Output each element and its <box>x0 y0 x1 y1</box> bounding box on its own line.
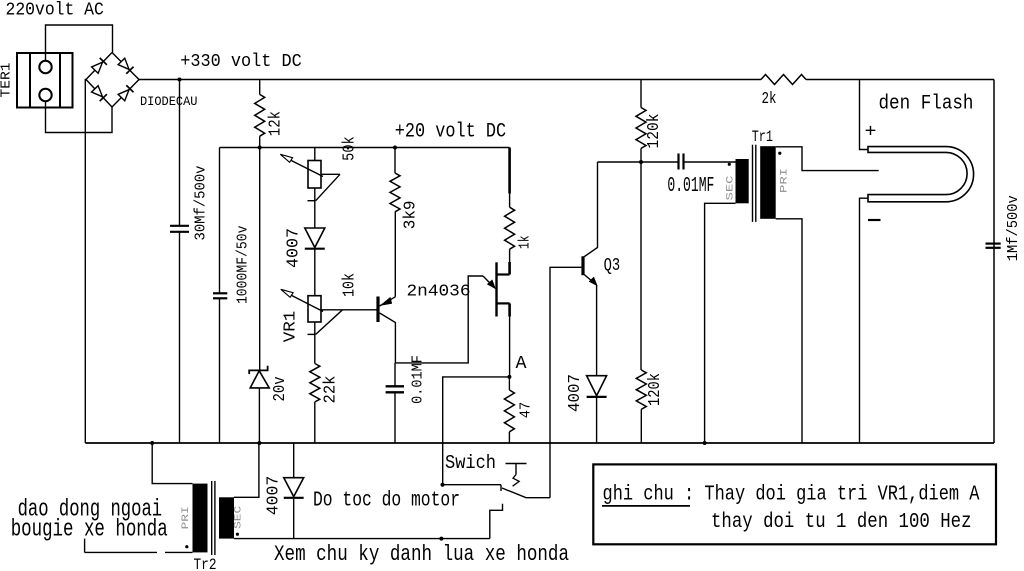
resistor 22k <box>310 364 320 403</box>
wire VR1 wiper to 2n4036 base <box>321 309 377 311</box>
UJT bar <box>495 262 497 316</box>
wire +330 rail to flash anode <box>860 80 869 150</box>
wire trigger node down to R 120k lower <box>640 162 642 370</box>
wire Q3 emitter to diode 4007 <box>596 285 598 375</box>
svg-text:1k: 1k <box>516 235 533 249</box>
transistor Q3 base bar <box>581 256 584 275</box>
wire +20 node to R 3k9 <box>394 148 396 174</box>
transformer Tr2 SEC polarity dot <box>236 533 239 536</box>
wire +330 rail to R 12k <box>259 80 261 95</box>
wire R 3k9 to 2n4036 emitter <box>394 212 396 297</box>
svg-text:12k: 12k <box>266 111 285 136</box>
node trigger junction <box>639 160 643 164</box>
wire TER1 top to bridge AC1 <box>46 25 113 61</box>
diode 4007 (oscillator) <box>305 228 325 248</box>
connector TER1 body <box>17 53 73 108</box>
svg-text:PRI: PRI <box>780 168 791 193</box>
resistor 120k (upper) <box>636 108 646 149</box>
wire diode 4007 to VR1 <box>314 250 316 296</box>
wire right rail <box>993 80 995 444</box>
wire flash cathode to ground rail <box>860 198 869 443</box>
wire external oscillator terminal <box>84 539 86 553</box>
wire TER1 bottom to bridge AC2 <box>46 101 113 132</box>
svg-text:30Mf/500v: 30Mf/500v <box>193 166 210 241</box>
resistor 12k <box>255 94 265 136</box>
wire +330V rail (2k to right rail) <box>806 79 994 81</box>
wire switch lever to Q3 base <box>550 267 581 497</box>
svg-text:1Mf/500v: 1Mf/500v <box>1005 195 1022 261</box>
potentiometer 50k body <box>308 161 321 189</box>
wire R 12k to +20 node <box>259 136 261 147</box>
wire +20 node to zener 20v <box>259 148 261 370</box>
svg-text:PRI: PRI <box>181 506 192 529</box>
wire R 120k lower to ground rail <box>640 409 642 443</box>
svg-text:Tr1: Tr1 <box>752 128 773 146</box>
capacitor 0.01MF (coupling) <box>677 154 679 170</box>
UJT emitter arrow <box>483 276 494 287</box>
bridge diode D3 (left-bottom edge) <box>91 85 107 101</box>
svg-text:TER1: TER1 <box>0 63 15 98</box>
wire R 47 to ground rail <box>508 432 510 443</box>
svg-text:DIODECAU: DIODECAU <box>140 94 198 109</box>
wire +330 node down to C 30Mf <box>179 80 181 226</box>
wire +330 rail to R 120k upper <box>640 80 642 108</box>
wire Tr2 SEC bottom to switch throw <box>234 538 490 540</box>
svg-text:4007: 4007 <box>265 476 284 516</box>
node Tr2 PRI ground junction <box>150 441 154 445</box>
svg-text:+330 volt DC: +330 volt DC <box>180 52 302 72</box>
bridge diode D2 (top-right edge) <box>118 58 134 74</box>
resistor 120k (lower) <box>636 370 646 409</box>
wire +330V rail (bridge to 2k) <box>139 79 761 81</box>
connector TER1 pin 2 <box>39 89 51 101</box>
transformer Tr2 PRI winding <box>193 484 208 553</box>
svg-text:Q3: Q3 <box>604 256 621 276</box>
svg-text:thay doi tu 1 den 100 Hez: thay doi tu 1 den 100 Hez <box>711 511 972 534</box>
wire diode 4007 Q3 to ground rail <box>596 398 598 443</box>
wire ground rail to Tr2 PRI top <box>152 443 192 484</box>
wire Tr1 PRI top to trigger electrode <box>776 147 879 171</box>
diode bridge outline <box>86 53 112 80</box>
potentiometer VR1 wiper link <box>316 310 343 335</box>
transformer Tr1 core <box>752 145 754 222</box>
svg-text:Xem chu ky danh lua xe honda: Xem chu ky danh lua xe honda <box>274 542 569 567</box>
svg-text:47: 47 <box>518 402 535 419</box>
svg-text:20v: 20v <box>271 376 290 401</box>
svg-text:4007: 4007 <box>285 228 304 268</box>
node switch pole terminal <box>441 483 445 487</box>
svg-text:SEC: SEC <box>233 506 244 529</box>
svg-text:50k: 50k <box>341 136 360 161</box>
wire trigger node to C 0.01MF <box>641 161 678 163</box>
potentiometer 50k arrow <box>289 159 323 176</box>
svg-text:0.01MF: 0.01MF <box>667 175 714 198</box>
svg-text:bougie xe honda: bougie xe honda <box>11 517 168 544</box>
transformer Tr1 SEC polarity dot <box>728 163 731 166</box>
wire +20 line corner to R 1k <box>508 148 511 194</box>
transistor Q3 collector <box>583 162 598 258</box>
wire Tr1 SEC bottom to ground rail <box>705 203 736 443</box>
svg-text:+: + <box>865 123 877 143</box>
UJT base B2 lead <box>508 262 511 275</box>
bridge diode D1 (left-top edge) <box>91 58 107 74</box>
svg-text:Swich: Swich <box>445 452 496 474</box>
switch lever <box>502 488 550 498</box>
capacitor 0.01MF (oscillator) <box>386 385 404 387</box>
transformer Tr1 SEC winding <box>736 159 749 203</box>
node Tr1 SEC ground junction <box>703 441 707 445</box>
transformer Tr2 core <box>211 481 213 555</box>
wire +20 line to pot 50k <box>314 148 316 161</box>
node +330 junction <box>178 78 182 82</box>
wire diode 4007 tacho to trigger wire <box>293 499 295 539</box>
wire trigger node to Q3 collector <box>598 161 642 163</box>
potentiometer VR1 body <box>308 296 321 322</box>
svg-text:ghi chu : Thay doi gia tri VR1: ghi chu : Thay doi gia tri VR1,diem A <box>603 484 980 507</box>
transformer Tr1 PRI winding <box>760 146 776 219</box>
svg-text:Do toc do motor: Do toc do motor <box>313 490 460 513</box>
wire C 30Mf to ground rail <box>179 232 181 443</box>
transformer Tr2 PRI polarity dot <box>185 545 188 548</box>
note box ghi chu <box>593 464 996 544</box>
wire Tr2 PRI bottom lead <box>165 551 193 553</box>
capacitor 1000MF/50v <box>213 292 227 294</box>
svg-text:3k9: 3k9 <box>402 201 421 230</box>
wire C 0.01MF to ground rail <box>394 392 396 443</box>
svg-text:4007: 4007 <box>566 374 585 412</box>
wire R 22k to ground rail <box>314 402 316 443</box>
svg-text:+20 volt DC: +20 volt DC <box>395 120 506 143</box>
note underline ghi chu <box>602 505 690 507</box>
wire node A to switch column <box>443 377 510 485</box>
flash tube <box>868 147 974 202</box>
svg-text:SEC: SEC <box>725 176 736 201</box>
diode 4007 (Q3) <box>587 376 607 396</box>
transistor 2n4036 base bar <box>376 297 379 323</box>
node 3k9/+20 junction <box>393 146 397 150</box>
connector TER1 pin 1 <box>39 61 51 73</box>
zener diode 20v <box>249 366 267 374</box>
UJT base B1 lead <box>498 302 510 304</box>
svg-text:Tr2: Tr2 <box>194 556 217 571</box>
wire R 120k to trigger node <box>640 148 642 162</box>
wire ground rail <box>85 442 994 444</box>
switch lower throw contact <box>490 504 503 539</box>
transistor 2n4036 collector <box>380 313 396 363</box>
transformer Tr1 PRI polarity dot <box>778 152 781 155</box>
wire collector node to UJT emitter <box>395 276 483 363</box>
wire C 1000MF to ground rail <box>219 298 221 443</box>
svg-text:2n4036: 2n4036 <box>407 283 471 302</box>
transistor 2n4036 emitter <box>380 297 396 306</box>
wire C 0.01MF to Tr1 SEC <box>684 161 736 163</box>
svg-text:220volt AC: 220volt AC <box>6 0 104 20</box>
wire +20V line <box>220 147 510 149</box>
wire VR1 to R 22k <box>314 322 316 364</box>
svg-text:22k: 22k <box>322 376 341 404</box>
label - (flash cathode) <box>868 219 881 221</box>
svg-text:10k: 10k <box>341 273 360 297</box>
capacitor 30Mf/500v <box>170 225 189 227</box>
potentiometer VR1 arrow <box>289 294 323 311</box>
wire Tr1 PRI bottom to ground rail <box>776 219 802 443</box>
transistor Q3 emitter <box>583 274 596 285</box>
svg-text:120k: 120k <box>645 114 664 149</box>
svg-text:2k: 2k <box>762 90 777 109</box>
bridge diode D4 (bottom-right edge) <box>118 85 134 101</box>
node external trigger terminal <box>439 537 443 541</box>
node zener/ground junction <box>257 441 261 445</box>
resistor 3k9 <box>390 173 400 212</box>
resistor 47 <box>504 390 514 432</box>
potentiometer 50k wiper link <box>321 173 340 175</box>
wire R 1k to UJT B2 <box>509 249 511 262</box>
svg-text:120k: 120k <box>646 373 665 406</box>
transformer Tr2 SEC winding <box>219 497 234 538</box>
svg-text:1000MF/50v: 1000MF/50v <box>235 226 252 305</box>
wire node A to R 47 <box>508 377 510 390</box>
wire pot 50k to diode 4007 <box>314 188 316 228</box>
resistor 2k <box>761 75 806 85</box>
resistor 1k <box>505 207 515 249</box>
wire +20 line down to C 1000MF <box>219 148 221 294</box>
wire R 1k upper lead <box>509 194 511 208</box>
wire bridge negative to ground rail <box>84 80 87 444</box>
svg-text:VR1: VR1 <box>281 311 300 343</box>
switch upper contact <box>506 463 527 465</box>
wire switch pole <box>443 484 502 486</box>
diode 4007 (tacho) <box>284 478 304 497</box>
svg-text:A: A <box>516 354 527 374</box>
capacitor 1Mf/500v <box>986 243 1001 245</box>
wire zener 20v to ground rail <box>258 388 260 443</box>
wire Tr2 SEC top to ground rail <box>234 443 259 497</box>
wire 2n4036 collector to C 0.01MF <box>394 363 396 386</box>
node A <box>507 375 511 379</box>
wire ground rail to diode 4007 (tacho) <box>293 443 295 478</box>
node 12k/+20 junction <box>258 146 262 150</box>
svg-text:den Flash: den Flash <box>879 93 974 116</box>
wire UJT B1 to node A <box>509 317 511 377</box>
